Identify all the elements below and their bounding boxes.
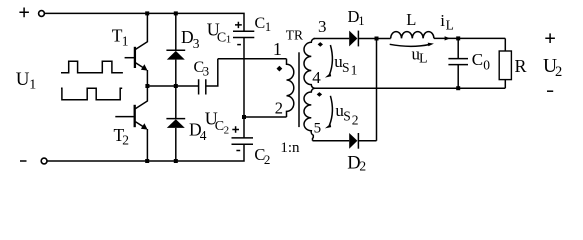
inductor L [391, 32, 434, 39]
svg-text:1: 1 [122, 33, 129, 48]
input plus terminal circle [39, 11, 45, 17]
svg-text:R: R [515, 56, 527, 76]
svg-text:4: 4 [200, 128, 207, 143]
node C1-C2 midpoint to primary [242, 115, 246, 119]
resistor R [499, 38, 511, 88]
voltage uL arrow [390, 44, 430, 46]
transistor T2 [115, 86, 147, 161]
wire D1 to D2 link [376, 39, 378, 141]
svg-text:1: 1 [265, 20, 271, 34]
svg-text:1: 1 [226, 34, 232, 46]
node midpoint T1-T2 [145, 84, 149, 88]
output minus label [547, 90, 553, 92]
svg-text:L: L [446, 18, 454, 33]
svg-text:1: 1 [273, 39, 282, 59]
wire top rail [44, 13, 244, 31]
svg-text:3: 3 [193, 36, 200, 51]
svg-text:C: C [255, 15, 266, 32]
svg-text:1: 1 [351, 63, 358, 78]
secondary winding S1 [304, 39, 315, 89]
node bottom-rail T2 junction [145, 159, 149, 163]
svg-text:2: 2 [122, 133, 129, 148]
node D1 cathode junction [375, 37, 379, 41]
svg-text:TR: TR [286, 28, 303, 43]
svg-text:2: 2 [555, 64, 562, 80]
svg-text:3: 3 [203, 64, 210, 79]
input minus terminal label [20, 160, 27, 162]
primary phase dot [277, 66, 283, 72]
svg-text:2: 2 [275, 99, 283, 118]
diode D1 [349, 31, 391, 47]
diode D3 [166, 13, 185, 86]
capacitor C1 plus mark [235, 22, 242, 28]
svg-text:i: i [440, 11, 445, 30]
svg-text:0: 0 [483, 58, 490, 73]
node midpoint D3-D4 [174, 84, 178, 88]
transistor T1 [125, 13, 148, 86]
transformer core [298, 52, 300, 127]
output plus label [545, 33, 555, 43]
node bottom-rail D4 junction [174, 159, 178, 163]
node output bottom C0 junction [456, 86, 460, 90]
svg-text:D: D [181, 27, 194, 47]
current iL arrow on wire [445, 36, 451, 40]
node top-rail D3 junction [174, 11, 178, 15]
svg-text:5: 5 [314, 121, 322, 137]
diode D2 [313, 133, 377, 149]
svg-text:4: 4 [312, 68, 321, 87]
capacitor C2 plus mark [232, 126, 239, 132]
svg-text:S: S [343, 109, 351, 124]
voltage uS2 arrow [329, 96, 332, 126]
wire transistor midpoint [147, 85, 198, 87]
waveform T2 drive [61, 88, 122, 100]
svg-text:3: 3 [318, 17, 327, 36]
secondary S1 phase dot [318, 42, 323, 47]
wire L to output node [434, 37, 505, 39]
wire secondary center tap to output return [313, 87, 505, 89]
diode D4 [166, 86, 185, 161]
svg-text:U: U [16, 69, 30, 90]
wire bottom rail [47, 144, 244, 161]
node output top C0 junction [456, 36, 460, 40]
svg-text:S: S [342, 60, 350, 75]
svg-text:L: L [406, 10, 416, 29]
svg-text:2: 2 [224, 125, 230, 137]
capacitor C1 [233, 31, 254, 138]
transformer primary winding [287, 59, 294, 117]
svg-text:1: 1 [29, 78, 36, 93]
capacitor C0 [448, 38, 468, 88]
svg-text:C: C [472, 50, 483, 69]
svg-text:2: 2 [359, 158, 366, 173]
svg-text:2: 2 [264, 152, 271, 167]
input minus terminal circle [41, 158, 47, 164]
wire primary node 2 [244, 116, 287, 118]
wire C3 to primary node 1 [218, 58, 287, 60]
capacitor C3 [199, 59, 218, 95]
waveform T1 drive [61, 61, 123, 73]
capacitor C1 minus mark [237, 44, 241, 46]
svg-text:L: L [419, 52, 428, 67]
voltage uS1 arrow [329, 45, 332, 75]
secondary S2 phase dot [317, 92, 322, 97]
secondary winding S2 [304, 88, 315, 141]
capacitor C2 minus mark [236, 150, 240, 152]
svg-text:1: 1 [358, 14, 364, 28]
input plus terminal label [19, 8, 29, 18]
svg-text:2: 2 [352, 112, 359, 127]
svg-text:1:n: 1:n [280, 140, 300, 156]
capacitor C2 [232, 138, 254, 144]
node top-rail T1 junction [145, 11, 149, 15]
wire node 3 to D1 [314, 38, 350, 40]
